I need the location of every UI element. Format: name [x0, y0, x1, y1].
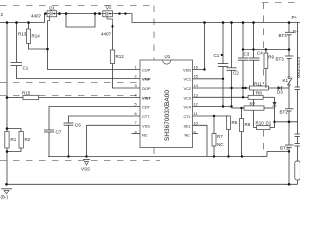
wire R7 right	[264, 107, 275, 109]
junction (289,183.5)	[288, 183, 291, 186]
dashed battery box left upper	[263, 3, 265, 54]
battery BT2	[285, 86, 294, 145]
wire RT1 bottom	[297, 180, 299, 184]
junction (241.5,108)	[240, 107, 242, 109]
svg-text:4407: 4407	[101, 32, 112, 37]
junction (66,13.6)	[65, 12, 68, 15]
svg-text:VINT: VINT	[142, 96, 151, 101]
svg-text:BT1: BT1	[280, 146, 289, 151]
wire right edge column	[297, 23, 299, 88]
resistor R10	[257, 126, 271, 130]
junction (7,151.5)	[6, 150, 9, 153]
junction (231.5,88)	[230, 87, 232, 89]
wire R6 top	[241, 108, 243, 119]
wire Q1 gate to pin1	[48, 21, 141, 70]
transistor Q2	[101, 11, 114, 27]
wire pin14 VC2 row	[193, 87, 250, 89]
junction (253.5,22.5)	[252, 21, 255, 24]
wire pin8 stub	[132, 133, 141, 135]
wire R12 bottom to pin2 row	[113, 64, 141, 89]
svg-text:VC4: VC4	[184, 105, 192, 110]
junction (223,106.5)	[222, 105, 224, 107]
svg-text:C3: C3	[244, 52, 250, 57]
ground B-	[1, 189, 12, 194]
resistor R12	[110, 50, 114, 64]
junction (7,97.5)	[6, 96, 9, 99]
svg-text:R11: R11	[254, 81, 262, 86]
svg-text:VDD: VDD	[183, 68, 191, 73]
junction (243,22.5)	[242, 21, 245, 24]
resistor R8	[248, 95, 263, 99]
wire pin7 VSS down	[87, 125, 141, 156]
wire pin15 VC1 row	[193, 78, 224, 80]
junction (245.5,88)	[244, 87, 246, 89]
svg-text:R9: R9	[268, 55, 274, 60]
svg-text:7: 7	[135, 120, 137, 125]
svg-text:K2SG/D00: K2SG/D00	[296, 57, 300, 79]
resistor R1	[5, 132, 9, 149]
svg-text:R13: R13	[18, 32, 27, 37]
junction (289,22.5)	[288, 21, 291, 24]
thermistor RT1	[295, 161, 301, 180]
capacitor C7	[44, 130, 54, 157]
svg-text:BT3: BT3	[276, 57, 285, 62]
svg-text:C2: C2	[233, 71, 239, 76]
wire R9 bottom	[265, 69, 267, 89]
dashed line mid A	[0, 82, 139, 84]
dashed battery box left lower	[263, 130, 265, 157]
svg-text:12: 12	[194, 102, 198, 107]
junction (265.9,49.5)	[265, 48, 267, 50]
junction (274.5,121.8)	[273, 121, 275, 123]
junction (125.5,13.6)	[124, 12, 126, 14]
resistor R2	[19, 132, 23, 149]
capacitor C1 left	[11, 23, 141, 79]
wire R6 bottom	[241, 132, 243, 157]
svg-text:U1: U1	[165, 54, 171, 59]
resistor R6 vertical	[240, 119, 244, 132]
capacitor C3	[238, 23, 249, 98]
dashed boundary right vertical upper	[153, 6, 155, 61]
junction (253.5,49.5)	[252, 48, 254, 50]
svg-text:3: 3	[135, 83, 137, 88]
svg-text:VSS: VSS	[142, 123, 150, 128]
svg-text:K1: K1	[283, 78, 289, 83]
svg-text:CTL: CTL	[184, 114, 192, 119]
wire rail after Q2	[114, 14, 300, 23]
dashed boundary top	[0, 5, 154, 7]
dashed battery box left mid	[263, 69, 265, 84]
wire R4 bottom	[213, 146, 215, 157]
transistor Q1	[46, 11, 58, 21]
resistor R9 vertical	[264, 53, 268, 69]
wire pin6 CTT to C6	[69, 116, 141, 123]
svg-text:CDT: CDT	[142, 105, 151, 110]
diode D2	[273, 97, 277, 122]
svg-text:R5: R5	[232, 120, 238, 125]
wire bottom collector to battery	[267, 152, 289, 157]
svg-text:16: 16	[194, 65, 198, 70]
wire left rail	[6, 23, 8, 132]
junction (223,22.5)	[222, 21, 225, 24]
junction (231.5,106.5)	[230, 105, 232, 107]
junction (7,128.5)	[6, 127, 9, 130]
junction (289,49.5)	[288, 48, 291, 51]
junction (16.5,22.5)	[15, 21, 18, 24]
svg-text:R1: R1	[11, 137, 17, 142]
wire R4 top	[213, 116, 215, 134]
wire R15 right to pin4	[39, 97, 141, 99]
junction (214,156.5)	[213, 155, 215, 157]
junction (45.3,13.6)	[44, 12, 46, 14]
svg-text:R8: R8	[256, 91, 262, 96]
dashed battery box top	[262, 2, 300, 4]
dashed boundary right vertical lower	[153, 148, 155, 161]
svg-text:D3: D3	[277, 90, 283, 95]
switch K1	[288, 77, 293, 87]
svg-text:C1: C1	[214, 53, 220, 58]
junction (243,49.5)	[242, 48, 244, 50]
junction (243,88)	[242, 87, 244, 89]
svg-text:C7: C7	[56, 130, 62, 135]
wire R10 left	[254, 127, 257, 129]
junction (289,121.8)	[288, 121, 291, 124]
wire left rail lower	[6, 148, 8, 184]
junction (119.5,13.6)	[118, 12, 120, 14]
wire R10 right	[270, 122, 275, 128]
svg-text:C6: C6	[75, 123, 81, 128]
svg-text:CTT: CTT	[142, 114, 150, 119]
svg-text:BT4: BT4	[279, 33, 288, 38]
svg-text:R7: R7	[217, 134, 223, 139]
svg-text:R7: R7	[250, 101, 256, 106]
wire pin12 VC4 row	[193, 106, 232, 108]
svg-text:C4: C4	[257, 51, 263, 56]
svg-text:R10: R10	[256, 121, 265, 126]
resistor R7	[244, 106, 264, 110]
wire R5 bottom	[228, 130, 230, 157]
battery BT4	[285, 23, 294, 57]
svg-text:R14: R14	[32, 34, 41, 39]
svg-text:VC1: VC1	[184, 77, 192, 82]
junction (68.5,156.5)	[67, 155, 69, 157]
wire pin16 VDD to top rail	[193, 23, 205, 70]
junction (231.5,22.5)	[230, 21, 233, 24]
junction (28.5,22.5)	[27, 21, 30, 24]
junction (204.5,69.5)	[203, 68, 205, 70]
svg-text:Q1: Q1	[49, 5, 56, 10]
wire pin10 SEL row	[193, 125, 208, 156]
junction (99.5,13.6)	[98, 12, 101, 15]
capacitor C2	[227, 23, 237, 107]
junction (204.5,22.5)	[203, 21, 206, 24]
svg-text:(B-): (B-)	[1, 195, 9, 200]
wire R2 bottom	[7, 148, 21, 152]
svg-text:P+: P+	[292, 15, 298, 20]
wire R8 right	[263, 96, 274, 98]
wire R15 left	[7, 97, 23, 99]
svg-text:SH367003XBA00: SH367003XBA00	[164, 90, 171, 141]
wire R7 left	[232, 107, 245, 109]
op-amp U1 IC SH367003XBA00	[140, 60, 193, 148]
junction (221.8,55)	[221, 54, 223, 56]
junction (223,78.8)	[222, 78, 224, 80]
svg-text:Q2: Q2	[106, 5, 113, 10]
wire R13 top	[28, 23, 30, 30]
svg-text:VC2: VC2	[184, 86, 192, 91]
capacitor C4	[249, 23, 260, 128]
resistor R11	[250, 86, 269, 90]
junction (7,22.5)	[6, 21, 9, 24]
battery BT1	[285, 145, 294, 184]
ground VSS	[83, 160, 90, 166]
dashed boundary bottom	[0, 160, 160, 162]
junction (228.5,156.5)	[227, 155, 229, 157]
svg-text:15: 15	[194, 74, 198, 79]
svg-text:VSS: VSS	[81, 167, 90, 172]
svg-text:11: 11	[194, 111, 198, 116]
wire pin11 CTL row	[193, 115, 229, 117]
svg-text:NC: NC	[185, 133, 191, 138]
svg-text:CUP: CUP	[142, 68, 151, 73]
svg-text:4407: 4407	[31, 14, 42, 19]
wire pin9 stub	[193, 133, 199, 135]
svg-text:D1: D1	[266, 121, 272, 126]
svg-text:R2: R2	[25, 137, 31, 142]
svg-text:NC: NC	[142, 133, 148, 138]
junction (84.5,156.5)	[85, 155, 87, 157]
capacitor C6	[64, 123, 74, 157]
dashed line mid B	[0, 95, 139, 97]
svg-text:DOP: DOP	[142, 86, 151, 91]
junction (47.5,49)	[46, 48, 49, 51]
junction (289,151.5)	[288, 150, 290, 152]
junction (6.5,183.5)	[5, 183, 8, 186]
svg-text:R15: R15	[22, 90, 31, 95]
capacitor C1 right	[218, 23, 229, 107]
junction (242,156.5)	[241, 155, 243, 157]
wire pin5 CDT to C7	[49, 107, 140, 131]
wire R2 top	[7, 129, 21, 132]
svg-text:R12: R12	[116, 54, 125, 59]
junction (59.5,13.6)	[58, 12, 61, 15]
resistor R15	[23, 95, 39, 99]
svg-text:BT2: BT2	[280, 110, 289, 115]
wire R13 bottom to gate node	[29, 44, 48, 50]
svg-text:B+: B+	[293, 29, 299, 34]
battery BT3	[285, 56, 294, 77]
diode D3	[269, 86, 289, 90]
wire top-left rail	[0, 14, 46, 23]
wire pin13 VC3 row	[193, 96, 249, 98]
svg-text:2: 2	[135, 74, 137, 79]
junction (112.5,26.5)	[111, 25, 113, 27]
wire bottom rail	[6, 183, 298, 185]
wire drain loop	[66, 14, 95, 27]
svg-text:6: 6	[135, 111, 137, 116]
svg-text:C1: C1	[23, 66, 29, 71]
wire R9 top tap	[243, 49, 289, 51]
svg-text:SEL: SEL	[184, 123, 192, 128]
svg-text:5: 5	[135, 101, 137, 106]
svg-text:R6: R6	[245, 122, 251, 127]
svg-text:13: 13	[194, 92, 198, 97]
svg-text:1: 1	[135, 65, 137, 70]
resistor R5 vertical	[227, 116, 231, 130]
wire tap12 row	[275, 121, 298, 123]
junction (95,13.6)	[94, 12, 97, 15]
svg-text:VC3: VC3	[184, 96, 192, 101]
wire rail Q1-Q2	[58, 13, 102, 15]
wire R12 top from Q2 gate	[112, 24, 114, 50]
svg-text:NC: NC	[217, 142, 224, 147]
wire VSS rail	[48, 156, 267, 158]
svg-text:VMP: VMP	[142, 77, 151, 82]
junction (243,97.3)	[242, 96, 244, 98]
resistor R13 R14	[27, 29, 31, 44]
resistor R4 vertical	[212, 134, 216, 147]
junction (214,116)	[213, 115, 215, 117]
